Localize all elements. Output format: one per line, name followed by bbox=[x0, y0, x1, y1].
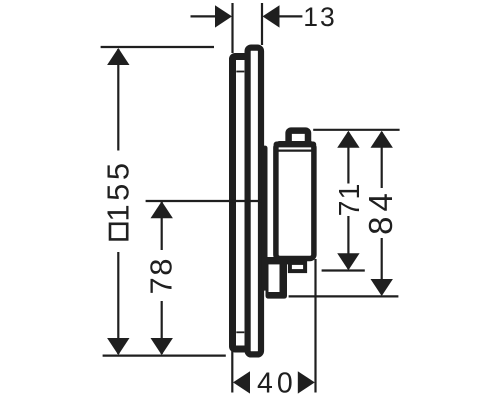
dim 71 top arrow bbox=[337, 131, 359, 148]
dim 155 bottom arrow bbox=[107, 338, 129, 355]
lower channel bottom cap bbox=[266, 292, 288, 299]
dim 78 bottom arrow bbox=[151, 338, 173, 355]
dim 84 line upper bbox=[381, 132, 383, 188]
cartridge sleeve bar bbox=[262, 146, 268, 291]
ext line lower piece bottom right bbox=[289, 295, 399, 297]
svg-text:13: 13 bbox=[303, 2, 336, 32]
dim 40 right arrow bbox=[298, 371, 315, 393]
back plate seam line top bbox=[236, 71, 244, 73]
dim 78 line upper bbox=[161, 202, 163, 250]
dim 155 line upper bbox=[117, 49, 119, 151]
ext line plate bottom bbox=[103, 355, 226, 357]
handle bezel cap bar bbox=[274, 142, 317, 148]
label square symbol bbox=[110, 224, 127, 240]
dim 84 bottom arrow bbox=[371, 279, 393, 296]
lower channel left band bbox=[266, 258, 269, 294]
back plate seam line bottom bbox=[236, 331, 244, 333]
svg-text:84: 84 bbox=[362, 188, 399, 235]
lower channel right band bbox=[280, 264, 288, 294]
ext line 40 right bbox=[314, 259, 316, 393]
dim 155 top arrow bbox=[107, 48, 129, 65]
dim 84 top arrow bbox=[371, 131, 393, 148]
dim 71 line lower bbox=[347, 216, 349, 269]
ext line knob top right bbox=[313, 129, 399, 131]
ext line 13 right bbox=[261, 3, 263, 45]
wall plate front escutcheon bbox=[248, 48, 261, 355]
dim 78 line lower bbox=[161, 301, 163, 354]
dim 71 line upper bbox=[347, 132, 349, 184]
svg-text:40: 40 bbox=[257, 368, 297, 400]
ext line plate top bbox=[101, 46, 214, 48]
handle body bbox=[276, 144, 314, 259]
wall plate back escutcheon bbox=[233, 57, 254, 350]
dim 40 left arrow bbox=[233, 371, 250, 393]
ext line 13 left bbox=[231, 3, 233, 53]
dim 13 right arrow bbox=[263, 5, 280, 27]
dim 155 line lower bbox=[117, 252, 119, 354]
dim 78 top arrow bbox=[151, 201, 173, 218]
ext line 40 left bbox=[231, 345, 233, 393]
svg-text:71: 71 bbox=[334, 183, 366, 217]
handle knob bbox=[289, 131, 308, 152]
dim 13 left lead line bbox=[191, 15, 217, 17]
svg-text:155: 155 bbox=[101, 159, 136, 221]
dim 13 left arrow bbox=[215, 5, 232, 27]
under-handle step bar bbox=[266, 257, 289, 264]
ext line handle bottom right bbox=[322, 269, 365, 271]
centerline of handle bbox=[146, 200, 262, 202]
dim 71 bottom arrow bbox=[337, 253, 359, 270]
stop ring bbox=[290, 263, 305, 271]
bezel joint line bbox=[276, 150, 314, 152]
dim 13 right lead line bbox=[279, 15, 302, 17]
dim 84 line lower bbox=[381, 238, 383, 295]
svg-text:78: 78 bbox=[143, 257, 178, 294]
